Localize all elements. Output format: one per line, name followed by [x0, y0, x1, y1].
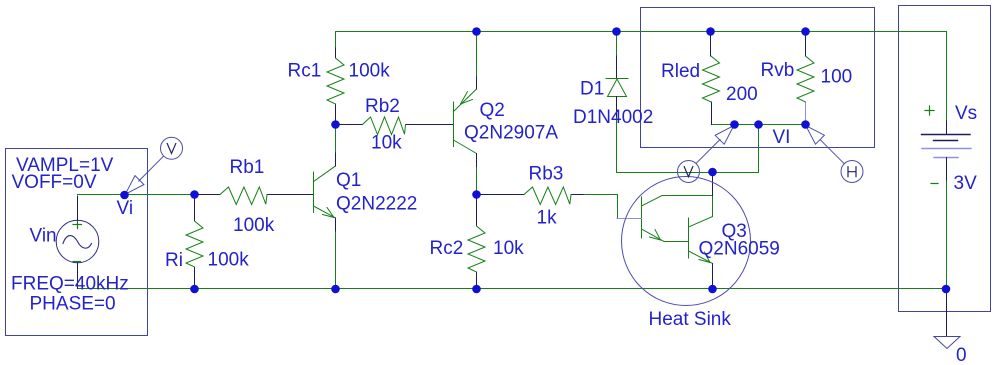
wire input node Vi [78, 194, 197, 196]
svg-text:D1: D1 [580, 79, 604, 100]
svg-text:Rvb: Rvb [761, 60, 795, 81]
transistor Q3 (Darlington) [642, 196, 713, 264]
svg-text:PHASE=0: PHASE=0 [30, 294, 116, 315]
svg-text:Rb3: Rb3 [529, 164, 564, 185]
wire Q3 emitter lead [712, 264, 714, 289]
junction Q2 collector [472, 190, 481, 199]
box battery annotation [899, 6, 991, 312]
svg-text:100k: 100k [208, 250, 250, 271]
probe V (node VI) [678, 126, 734, 183]
junction Rvb bottom [801, 120, 810, 129]
junction V arrow [730, 120, 739, 129]
ground 0 [946, 289, 948, 337]
wire Rb3 to Q3 base [583, 194, 618, 196]
svg-text:VOFF=0V: VOFF=0V [12, 172, 97, 193]
wire Q2 emitter to rail [476, 32, 478, 78]
box source annotation [6, 149, 148, 336]
svg-text:Q2N2907A: Q2N2907A [464, 123, 558, 144]
resistor Rvb [805, 33, 807, 56]
svg-text:D1N4002: D1N4002 [573, 107, 653, 128]
transistor Q1 [314, 166, 336, 218]
svg-text:200: 200 [726, 84, 758, 105]
svg-text:Vin: Vin [30, 226, 57, 247]
junction VI wire [754, 120, 763, 129]
svg-text:Rb2: Rb2 [365, 96, 400, 117]
svg-text:1k: 1k [537, 208, 558, 229]
diode D1 [616, 56, 618, 79]
svg-text:VI: VI [773, 127, 791, 148]
svg-text:Q1: Q1 [336, 170, 361, 191]
wire Rled bottom to Rvb bottom [712, 124, 806, 126]
resistor Rled [710, 33, 712, 56]
transistor Q2 [454, 89, 477, 154]
svg-text:100k: 100k [349, 61, 391, 82]
wire node VI up to Rled-Rvb bottom wire [758, 125, 760, 173]
junction Ri bottom [190, 285, 199, 294]
svg-text:Vs: Vs [955, 103, 977, 124]
wire Q3 collector lead [712, 172, 714, 196]
svg-text:Q2: Q2 [480, 100, 505, 121]
junction Q3 emitter bottom [708, 285, 717, 294]
svg-text:Rled: Rled [661, 61, 700, 82]
wire rail to D1 [616, 32, 618, 57]
junction Vi [120, 191, 129, 200]
wire Rc1 node to Q1 collector [335, 125, 337, 154]
wire bottom rail [78, 288, 947, 290]
svg-text:FREQ=40kHz: FREQ=40kHz [11, 274, 129, 295]
junction battery bottom [942, 285, 951, 294]
wire top rail corner down to Rc1 [335, 32, 337, 49]
svg-text:100: 100 [821, 66, 853, 87]
resistor Rb3 [479, 194, 525, 196]
svg-text:Ri: Ri [165, 250, 183, 271]
junction Rc2 bottom [472, 285, 481, 294]
resistor Rc1 [335, 48, 337, 58]
resistor Ri [194, 196, 196, 221]
svg-text:3V: 3V [954, 173, 978, 194]
probe V (Vi) [125, 137, 182, 194]
resistor Rb2 [337, 124, 363, 126]
svg-text:Q2N6059: Q2N6059 [699, 238, 780, 259]
wire Q1 emitter to bottom rail [335, 231, 337, 289]
wire down to Q3 base level [617, 195, 619, 219]
svg-text:10k: 10k [493, 238, 524, 259]
heat sink circle [622, 177, 751, 306]
wire D1 to node VI horizontal [617, 172, 759, 174]
wire Q2 collector to node [476, 167, 478, 195]
battery Vs [922, 134, 971, 136]
svg-text:Rb1: Rb1 [230, 157, 265, 178]
svg-text:10k: 10k [371, 132, 402, 153]
resistor Rb1 [196, 194, 220, 196]
svg-text:Heat Sink: Heat Sink [649, 309, 732, 330]
svg-text:100k: 100k [233, 215, 275, 236]
wire top rail [336, 31, 947, 33]
junction rail Q2 [472, 27, 481, 36]
junction rail D1 [612, 27, 621, 36]
wire D1 lower lead [616, 117, 618, 173]
wire Vs box right vertical [946, 32, 948, 122]
junction rail Rvb [801, 27, 810, 36]
junction Q1 emitter bottom [331, 285, 340, 294]
junction node VI [708, 168, 717, 177]
resistor Rc2 [476, 196, 478, 226]
svg-text:0: 0 [956, 345, 967, 365]
voltage source Vin [56, 220, 99, 263]
junction Ri top [190, 190, 199, 199]
probe H [806, 126, 863, 183]
wire battery bottom to rail [946, 180, 948, 289]
svg-text:Rc1: Rc1 [288, 61, 322, 82]
svg-text:Rc2: Rc2 [430, 238, 464, 259]
junction Rc1 bottom [331, 120, 340, 129]
wire Q3 base (lavender) [617, 218, 642, 220]
junction rail Rled [706, 27, 715, 36]
svg-text:Vi: Vi [117, 198, 134, 219]
box output annotation [641, 8, 875, 148]
svg-text:Q2N2222: Q2N2222 [336, 193, 417, 214]
